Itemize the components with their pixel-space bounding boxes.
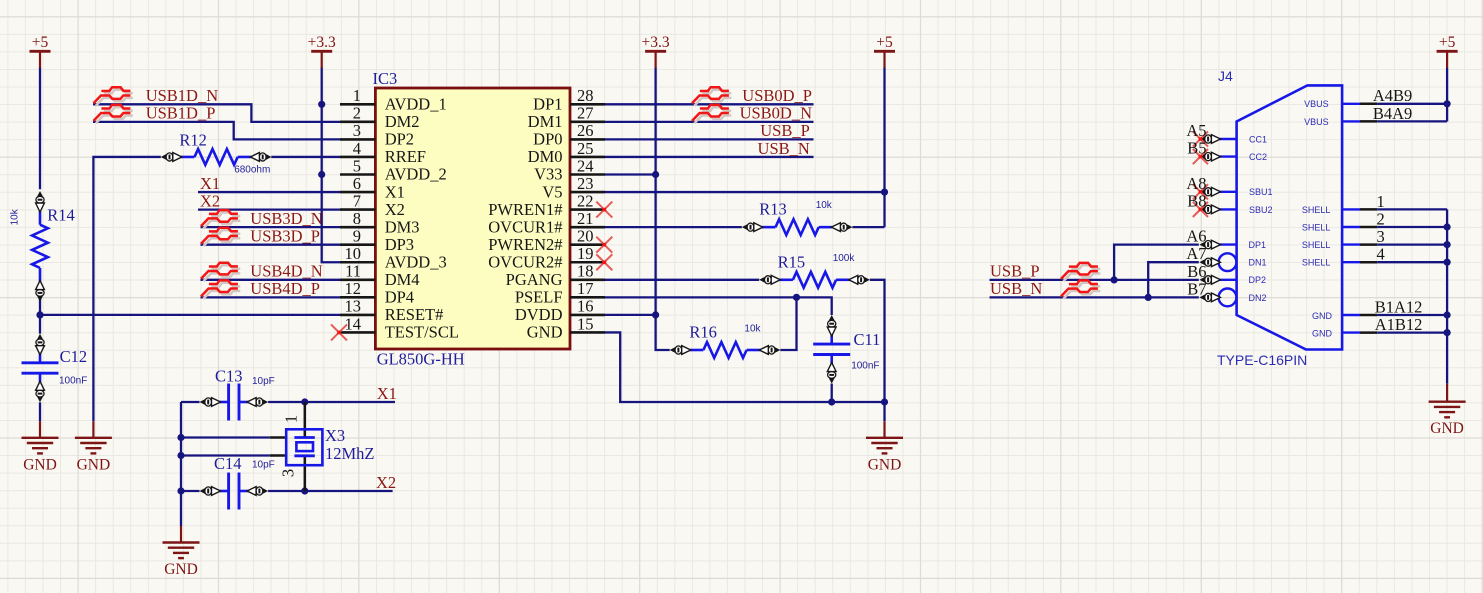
svg-text:100nF: 100nF: [59, 376, 87, 387]
svg-text:5: 5: [353, 156, 361, 175]
svg-text:27: 27: [577, 104, 594, 123]
svg-text:DM3: DM3: [385, 217, 420, 236]
svg-text:25: 25: [577, 139, 594, 158]
svg-text:SHELL: SHELL: [1302, 258, 1331, 268]
svg-text:SHELL: SHELL: [1302, 205, 1331, 215]
svg-text:DP2: DP2: [1249, 275, 1267, 285]
svg-text:USB_N: USB_N: [990, 279, 1042, 298]
svg-text:GND: GND: [164, 561, 198, 578]
svg-text:USB1D_P: USB1D_P: [146, 104, 216, 123]
svg-text:USB0D_N: USB0D_N: [740, 104, 813, 123]
svg-text:PSELF: PSELF: [515, 288, 563, 307]
svg-text:12MhZ: 12MhZ: [325, 444, 375, 463]
svg-text:6: 6: [353, 174, 361, 193]
svg-text:B8: B8: [1187, 191, 1206, 210]
svg-text:9: 9: [353, 227, 361, 246]
svg-text:AVDD_2: AVDD_2: [385, 165, 447, 184]
svg-text:2: 2: [353, 104, 361, 123]
svg-text:RESET#: RESET#: [385, 305, 444, 324]
svg-text:GND: GND: [1312, 329, 1333, 339]
svg-text:PGANG: PGANG: [506, 270, 563, 289]
svg-text:A5: A5: [1186, 121, 1206, 140]
svg-text:1: 1: [282, 415, 301, 423]
svg-text:OVCUR1#: OVCUR1#: [488, 217, 562, 236]
svg-text:USB3D_P: USB3D_P: [250, 227, 320, 246]
svg-text:26: 26: [577, 121, 594, 140]
svg-text:10pF: 10pF: [252, 460, 275, 471]
svg-text:3: 3: [1377, 227, 1385, 246]
svg-text:GND: GND: [527, 323, 563, 342]
svg-text:15: 15: [577, 314, 594, 333]
svg-text:DP1: DP1: [533, 95, 562, 114]
svg-text:X1: X1: [377, 384, 397, 403]
svg-text:SBU2: SBU2: [1249, 205, 1273, 215]
svg-text:8: 8: [353, 209, 361, 228]
svg-text:19: 19: [577, 244, 594, 263]
svg-text:GND: GND: [1430, 420, 1464, 437]
svg-text:DP4: DP4: [385, 288, 414, 307]
svg-text:18: 18: [577, 262, 594, 281]
svg-text:28: 28: [577, 86, 594, 105]
svg-text:X1: X1: [200, 174, 220, 193]
svg-text:+3.3: +3.3: [308, 34, 336, 51]
svg-text:A8: A8: [1186, 174, 1206, 193]
svg-text:GND: GND: [1312, 311, 1333, 321]
svg-text:SHELL: SHELL: [1302, 222, 1331, 232]
svg-text:A4B9: A4B9: [1373, 86, 1412, 105]
svg-text:USB3D_N: USB3D_N: [250, 209, 323, 228]
svg-text:13: 13: [345, 297, 362, 316]
svg-text:PWREN2#: PWREN2#: [488, 235, 562, 254]
svg-text:VBUS: VBUS: [1304, 117, 1329, 127]
svg-text:23: 23: [577, 174, 594, 193]
svg-text:3: 3: [279, 469, 298, 477]
svg-text:V5: V5: [542, 182, 562, 201]
svg-text:22: 22: [577, 191, 594, 210]
svg-text:1: 1: [353, 86, 361, 105]
svg-text:14: 14: [345, 314, 362, 333]
svg-text:TEST/SCL: TEST/SCL: [385, 323, 459, 342]
svg-text:DP3: DP3: [385, 235, 414, 254]
svg-text:R12: R12: [179, 131, 207, 150]
svg-text:OVCUR2#: OVCUR2#: [488, 252, 562, 271]
svg-text:B4A9: B4A9: [1373, 104, 1412, 123]
svg-text:GND: GND: [77, 456, 111, 473]
svg-text:DP0: DP0: [533, 130, 562, 149]
svg-text:DP2: DP2: [385, 130, 414, 149]
svg-text:USB4D_P: USB4D_P: [250, 279, 320, 298]
svg-text:X2: X2: [376, 473, 396, 492]
svg-text:TYPE-C16PIN: TYPE-C16PIN: [1217, 352, 1307, 368]
svg-text:R16: R16: [689, 323, 717, 342]
svg-text:X2: X2: [200, 191, 220, 210]
svg-text:SHELL: SHELL: [1302, 240, 1331, 250]
svg-text:17: 17: [577, 279, 594, 298]
svg-text:+5: +5: [32, 34, 49, 51]
svg-text:10pF: 10pF: [252, 376, 275, 387]
svg-text:1: 1: [1377, 192, 1385, 211]
svg-text:DM2: DM2: [385, 112, 420, 131]
svg-text:C11: C11: [854, 330, 881, 349]
svg-text:USB_P: USB_P: [760, 121, 810, 140]
svg-text:10k: 10k: [744, 324, 761, 335]
svg-text:SBU1: SBU1: [1249, 187, 1273, 197]
svg-text:C12: C12: [60, 347, 88, 366]
svg-text:4: 4: [1377, 245, 1385, 264]
svg-text:B5: B5: [1187, 139, 1206, 158]
svg-text:VBUS: VBUS: [1304, 99, 1329, 109]
svg-text:USB_P: USB_P: [990, 262, 1040, 281]
svg-text:B6: B6: [1187, 262, 1206, 281]
svg-text:DVDD: DVDD: [515, 305, 563, 324]
svg-text:680ohm: 680ohm: [234, 165, 270, 176]
svg-text:C13: C13: [215, 367, 243, 386]
svg-text:USB_N: USB_N: [758, 139, 810, 158]
svg-text:X1: X1: [385, 182, 405, 201]
svg-text:+3.3: +3.3: [642, 34, 670, 51]
svg-text:21: 21: [577, 209, 594, 228]
svg-text:J4: J4: [1218, 68, 1233, 84]
svg-text:A1B12: A1B12: [1375, 315, 1423, 334]
svg-text:+5: +5: [1439, 34, 1456, 51]
svg-text:3: 3: [353, 121, 361, 140]
svg-text:10k: 10k: [816, 200, 833, 211]
svg-text:A6: A6: [1186, 227, 1206, 246]
svg-text:11: 11: [345, 262, 361, 281]
svg-text:DN1: DN1: [1249, 258, 1267, 268]
svg-text:IC3: IC3: [373, 69, 398, 88]
svg-text:+5: +5: [876, 34, 893, 51]
svg-text:DM1: DM1: [528, 112, 563, 131]
svg-text:12: 12: [345, 279, 362, 298]
svg-text:7: 7: [353, 191, 361, 210]
svg-text:DM0: DM0: [528, 147, 563, 166]
svg-text:24: 24: [577, 156, 594, 175]
svg-text:DM4: DM4: [385, 270, 420, 289]
svg-text:100nF: 100nF: [851, 361, 879, 372]
svg-text:USB0D_P: USB0D_P: [742, 86, 812, 105]
svg-text:B7: B7: [1187, 279, 1206, 298]
svg-text:16: 16: [577, 297, 594, 316]
svg-text:B1A12: B1A12: [1375, 297, 1423, 316]
svg-text:R14: R14: [47, 206, 75, 225]
svg-text:100k: 100k: [833, 253, 856, 264]
svg-text:10k: 10k: [10, 208, 21, 225]
svg-text:RREF: RREF: [385, 147, 426, 166]
svg-text:GND: GND: [868, 456, 902, 473]
svg-text:USB1D_N: USB1D_N: [146, 86, 219, 105]
svg-text:A7: A7: [1186, 244, 1206, 263]
svg-text:R15: R15: [778, 253, 806, 272]
svg-text:R13: R13: [759, 199, 787, 218]
svg-text:10: 10: [345, 244, 362, 263]
svg-text:PWREN1#: PWREN1#: [488, 200, 562, 219]
svg-text:DN2: DN2: [1249, 293, 1267, 303]
svg-text:DP1: DP1: [1249, 240, 1267, 250]
svg-text:X3: X3: [325, 426, 345, 445]
svg-text:CC1: CC1: [1249, 134, 1267, 144]
svg-text:GND: GND: [23, 456, 57, 473]
svg-text:AVDD_3: AVDD_3: [385, 252, 447, 271]
svg-text:V33: V33: [534, 165, 562, 184]
svg-text:CC2: CC2: [1249, 152, 1267, 162]
svg-text:AVDD_1: AVDD_1: [385, 95, 447, 114]
svg-text:4: 4: [353, 139, 361, 158]
svg-text:2: 2: [1377, 209, 1385, 228]
svg-text:20: 20: [577, 227, 594, 246]
svg-text:X2: X2: [385, 200, 405, 219]
svg-text:C14: C14: [214, 454, 242, 473]
svg-text:GL850G-HH: GL850G-HH: [377, 350, 465, 369]
svg-text:USB4D_N: USB4D_N: [250, 262, 323, 281]
